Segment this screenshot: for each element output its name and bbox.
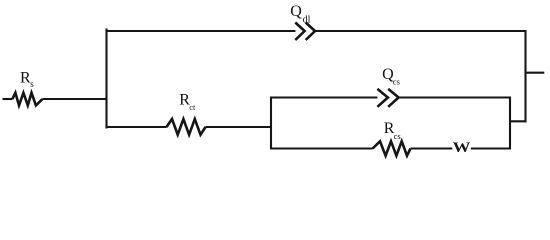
svg-text:cs: cs bbox=[393, 76, 400, 86]
wire W to inner box right bbox=[471, 147, 511, 149]
wire inner top branch right bbox=[399, 96, 511, 98]
wire inner bottom branch left bbox=[270, 147, 373, 149]
wire Rs to node A bbox=[42, 98, 107, 100]
wire link inner to outer bbox=[510, 120, 527, 122]
resistor Rct bbox=[167, 119, 206, 135]
wire inner top branch left bbox=[270, 96, 377, 98]
svg-text:dl: dl bbox=[303, 15, 311, 26]
inner box right vertical bbox=[509, 97, 511, 150]
svg-text:ct: ct bbox=[189, 102, 196, 112]
wire top branch right bbox=[315, 30, 527, 32]
wire terminal stub bbox=[526, 72, 545, 74]
svg-text:W: W bbox=[453, 140, 471, 156]
CPE Qdl bbox=[295, 23, 315, 41]
CPE Qcs bbox=[377, 89, 398, 107]
wire top branch left bbox=[106, 30, 296, 32]
wire Rct to inner box bbox=[206, 126, 273, 128]
resistor Rcs bbox=[373, 141, 411, 155]
wire Rcs to W bbox=[411, 147, 453, 149]
wire bottom branch left bbox=[107, 126, 167, 128]
resistor Rs bbox=[12, 93, 42, 106]
node A left junction vertical bbox=[105, 29, 107, 129]
svg-text:s: s bbox=[30, 79, 34, 89]
svg-text:Q: Q bbox=[290, 3, 302, 20]
outer box right vertical bbox=[524, 30, 526, 122]
svg-text:cs: cs bbox=[394, 131, 401, 141]
node B inner box left vertical bbox=[270, 97, 272, 150]
wire left lead bbox=[3, 98, 13, 100]
